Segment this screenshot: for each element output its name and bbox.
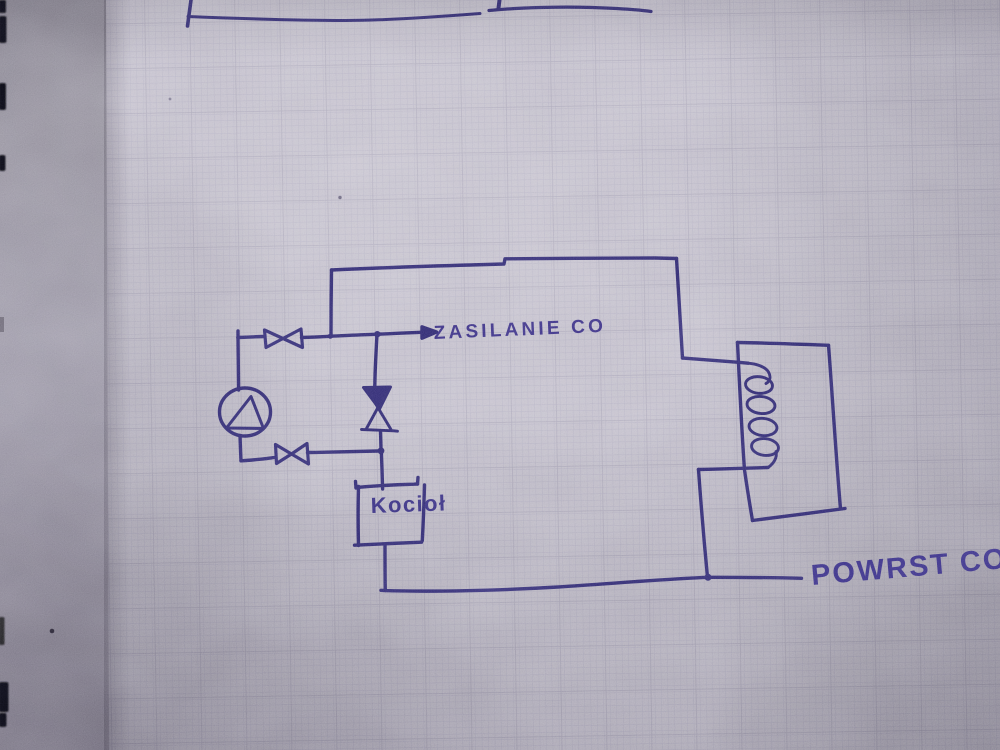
wire: supply, node T to node J3 — [330, 334, 377, 336]
left-edge dark marks — [0, 0, 9, 727]
wire: radiator lower drop — [699, 470, 708, 578]
wire: upper loop right vertical — [677, 259, 683, 359]
valve V2 (bowtie), right triangle — [292, 444, 309, 465]
wire: boiler bottom drop — [383, 545, 387, 591]
valve V1 (bowtie), left triangle — [265, 330, 284, 348]
pen dot — [50, 629, 55, 634]
wire: J1 down to boiler — [381, 451, 382, 489]
check valve CV1, lower-right stroke — [368, 390, 392, 430]
faint smudge left edge mid — [0, 317, 4, 332]
wire: into radiator top — [683, 358, 749, 363]
boiler B1 box, top-right tick — [416, 478, 420, 485]
top scrap: wire B — [489, 7, 651, 11]
radiator R1 box, left edge — [738, 343, 753, 521]
wire: supply, valve V1 to node T — [302, 336, 331, 337]
pump P1 triangle rotor — [227, 397, 264, 429]
wire: pump corner to valve V2 — [241, 458, 275, 461]
check valve CV1, lower-left stroke — [367, 390, 388, 429]
radiator R1 coil, entry curve — [748, 363, 770, 383]
valve V2 (bowtie), left triangle — [276, 445, 292, 464]
boiler B1 box, right edge — [422, 485, 424, 541]
radiator R1 box, right edge — [829, 345, 841, 508]
wire: supply, node J3 to arrow — [377, 332, 422, 334]
pump P1 body circle — [220, 388, 271, 436]
wire: check valve to node J1 — [379, 431, 383, 451]
boiler B1 box, top-left tick — [354, 482, 358, 489]
check valve CV1, filled upper triangle — [364, 387, 391, 409]
wire: bottom return right tail — [708, 577, 802, 578]
radiator R1 box, bottom edge — [753, 509, 846, 521]
check valve CV1, bottom edge — [362, 430, 398, 432]
radiator R1 coil, exit hook — [768, 452, 776, 468]
wire: pump bottom to lower wire — [240, 436, 241, 461]
wire: radiator lower horizontal — [699, 468, 769, 470]
wire: upper loop left vertical — [329, 270, 333, 336]
wire: bottom return long — [381, 577, 708, 591]
wire: corner overshoot tick — [236, 331, 239, 338]
boiler B1 box, top edge — [356, 484, 418, 488]
node J1 (lower wire / boiler drop) — [378, 447, 385, 454]
boiler B1 box, left edge — [356, 487, 360, 546]
radiator R1 coil, loop 4 — [751, 437, 780, 457]
speck top-left — [169, 98, 172, 101]
left margin strip (off-paper) — [0, 0, 109, 750]
top scrap: vertical tick right — [499, 0, 500, 8]
boiler B1 box, bottom edge — [355, 542, 422, 545]
wire: valve V2 to node J1 — [308, 451, 379, 453]
wire: upper loop top — [332, 258, 677, 270]
radiator R1 coil, loop 2 — [746, 395, 776, 415]
radiator R1 coil, loop 1 — [745, 375, 774, 394]
node J3 (supply / check valve tap) — [374, 331, 380, 337]
valve V1 (bowtie), right triangle — [283, 329, 303, 348]
wire: node J3 down to check valve — [375, 334, 377, 387]
wire: supply, corner to valve V1 — [238, 337, 264, 338]
arrowhead on supply wire — [422, 327, 437, 338]
top scrap: wire A — [188, 14, 480, 21]
node J2 (return / radiator drop) — [705, 574, 712, 581]
top scrap: vertical tick left — [188, 0, 192, 26]
speck mid-left — [338, 196, 341, 199]
radiator R1 box, top edge — [738, 343, 829, 346]
wire: left vertical down to pump P1 — [236, 338, 240, 391]
node T (upper loop tap) — [328, 334, 333, 339]
radiator R1 coil, loop 3 — [748, 417, 778, 437]
